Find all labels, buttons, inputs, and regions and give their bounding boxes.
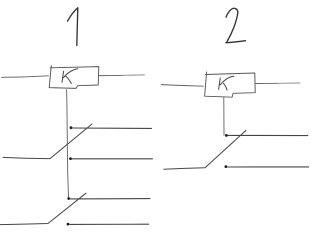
circuit 2 label "2" xyxy=(226,8,246,42)
wire: coil to contacts vertical (circuit 1) xyxy=(67,90,69,198)
wire: K1.1 NO throw xyxy=(72,127,152,129)
wire: right feed from coil (circuit 2) xyxy=(255,82,278,84)
wire: K1.2 NO throw xyxy=(71,198,150,200)
contact K1.2 movable lever xyxy=(0,193,86,224)
relay coil K (circuit 2) xyxy=(205,72,256,97)
wire: coil to contact vertical (circuit 2) xyxy=(223,97,225,135)
coil value label K (circuit 1) xyxy=(62,69,78,84)
wire: K2.1 NC throw xyxy=(228,166,309,168)
wire: left feed to coil (circuit 1) xyxy=(2,76,49,78)
relay coil K (circuit 1) xyxy=(49,66,99,89)
junction dot K1.2 NC throw xyxy=(67,223,70,226)
junction dot K2.1 NC throw xyxy=(225,165,228,168)
contact K1.1 movable lever xyxy=(3,124,92,159)
wire: K2.1 NO throw xyxy=(228,134,308,136)
circuit 1 label "1" xyxy=(68,8,78,46)
junction dot K1.1 NC throw xyxy=(69,157,72,160)
coil value label K (circuit 2) xyxy=(219,76,234,90)
junction dot K2.1 NO throw xyxy=(225,134,228,137)
wire: K1.1 NC throw xyxy=(72,158,153,160)
contact K2.1 movable lever xyxy=(164,130,246,169)
junction dot K1.2 NO throw xyxy=(67,197,70,200)
junction dot K1.1 NO throw xyxy=(70,126,73,129)
wire: right feed from coil (circuit 1) xyxy=(99,74,123,76)
wire: K1.2 NC throw xyxy=(70,223,149,225)
wire: left feed to coil (circuit 2) xyxy=(161,85,203,87)
